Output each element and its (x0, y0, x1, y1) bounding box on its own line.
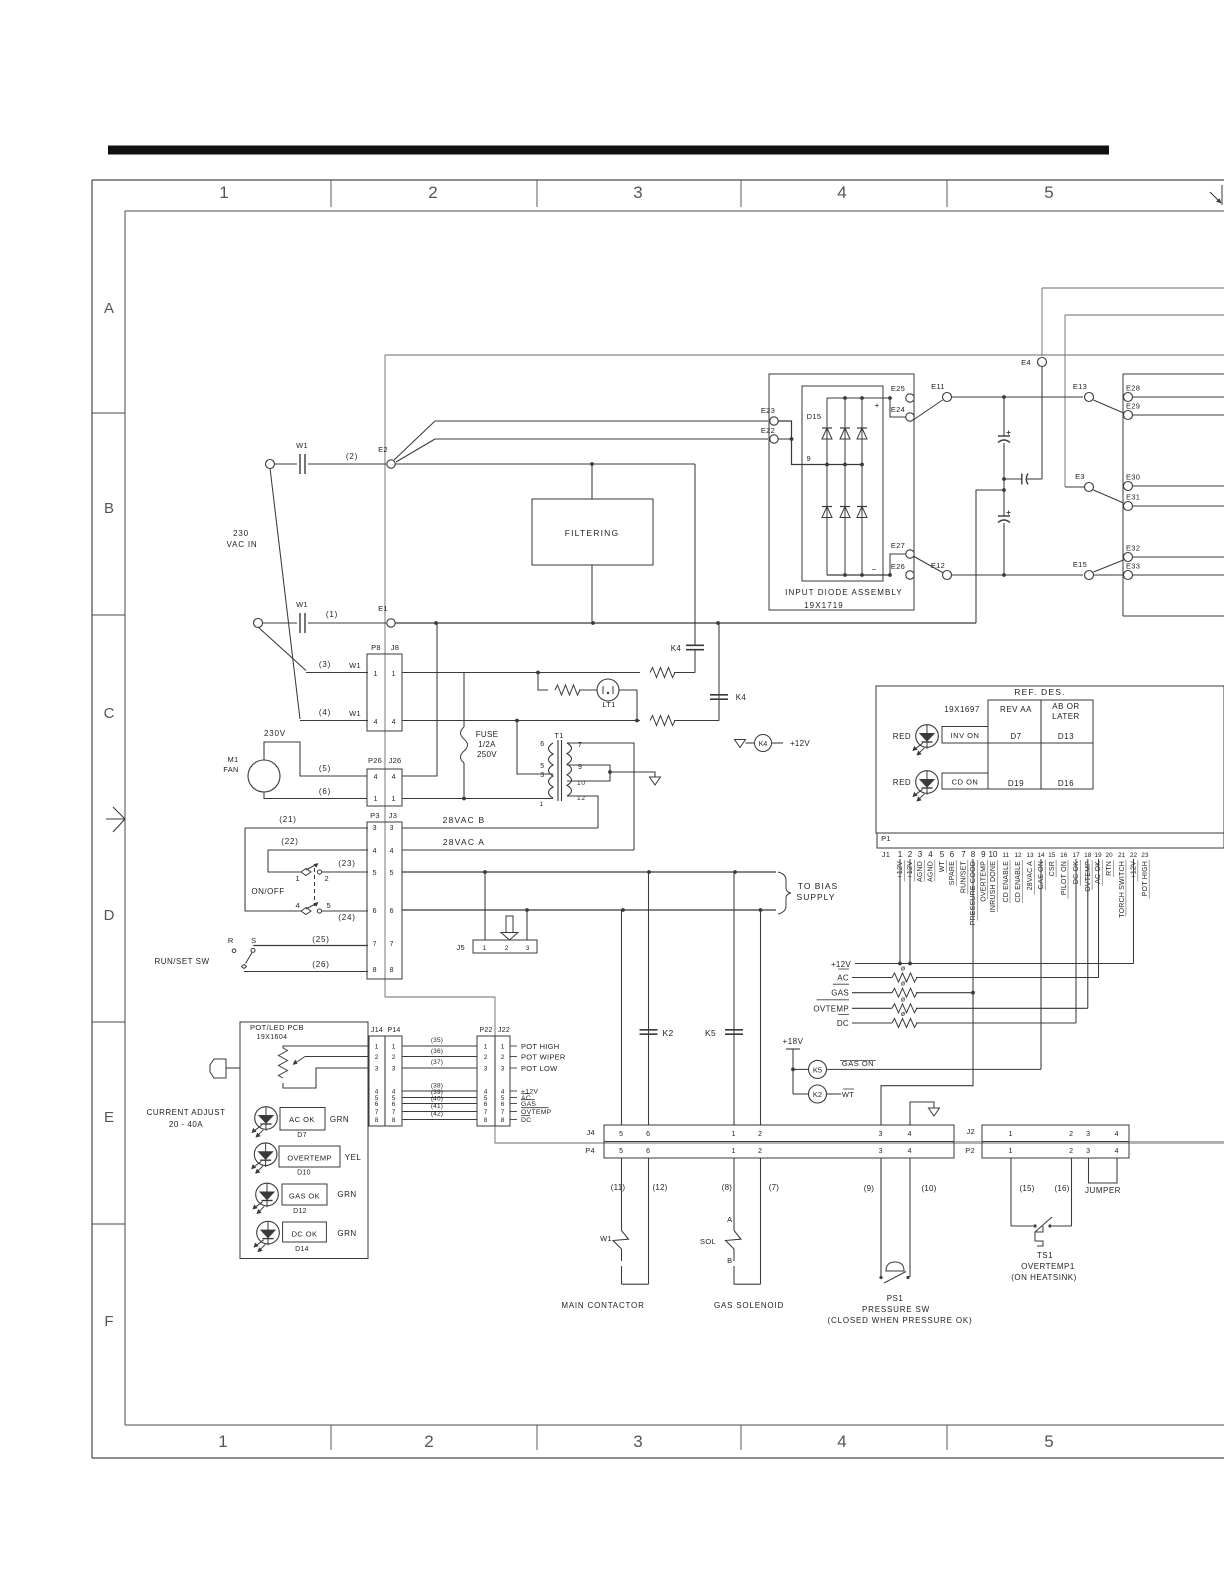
svg-text:GRN: GRN (330, 1115, 349, 1124)
svg-text:SUPPLY: SUPPLY (797, 892, 836, 902)
svg-text:250V: 250V (477, 750, 497, 759)
svg-text:(11): (11) (611, 1183, 626, 1192)
svg-text:7: 7 (961, 850, 966, 859)
svg-text:+12V: +12V (790, 739, 810, 748)
svg-text:16: 16 (1060, 852, 1068, 859)
svg-text:6: 6 (484, 1101, 488, 1108)
svg-text:11: 11 (1002, 852, 1009, 859)
svg-text:5: 5 (1044, 1432, 1053, 1451)
svg-text:3: 3 (390, 825, 395, 832)
svg-text:1: 1 (392, 671, 397, 678)
svg-text:M1: M1 (227, 755, 238, 764)
svg-text:8: 8 (390, 967, 395, 974)
svg-text:E3: E3 (1075, 472, 1085, 481)
svg-text:3: 3 (633, 1432, 642, 1451)
svg-text:3: 3 (879, 1148, 884, 1155)
svg-text:1: 1 (484, 1044, 488, 1051)
svg-text:5: 5 (390, 870, 395, 877)
svg-text:K2: K2 (813, 1090, 822, 1099)
svg-text:E24: E24 (891, 405, 905, 414)
svg-text:1: 1 (732, 1148, 737, 1155)
svg-text:RUN/SET: RUN/SET (961, 860, 968, 893)
svg-text:2: 2 (424, 1432, 433, 1451)
svg-text:7: 7 (390, 941, 395, 948)
svg-text:POT HIGH: POT HIGH (521, 1042, 560, 1051)
svg-text:D15: D15 (807, 412, 822, 421)
svg-text:5: 5 (619, 1148, 624, 1155)
svg-text:B: B (727, 1256, 733, 1265)
svg-text:4: 4 (908, 1131, 913, 1138)
svg-text:19X1697: 19X1697 (944, 705, 980, 714)
svg-text:GRN: GRN (337, 1229, 356, 1238)
svg-text:E23: E23 (761, 406, 775, 415)
svg-text:SOL: SOL (700, 1237, 716, 1246)
svg-text:8: 8 (971, 850, 976, 859)
svg-text:4: 4 (1115, 1148, 1120, 1155)
svg-text:E: E (104, 1109, 114, 1126)
svg-text:POT LOW: POT LOW (521, 1064, 558, 1073)
svg-text:POT/LED PCB: POT/LED PCB (250, 1023, 304, 1032)
svg-text:(25): (25) (312, 935, 329, 944)
svg-text:3: 3 (373, 825, 378, 832)
svg-text:E1: E1 (378, 604, 388, 613)
svg-text:28VAC B: 28VAC B (443, 815, 486, 825)
svg-text:P3: P3 (370, 811, 380, 820)
svg-text:4: 4 (374, 774, 379, 781)
svg-text:POT WIPER: POT WIPER (521, 1053, 566, 1062)
svg-text:P14: P14 (387, 1027, 400, 1034)
svg-text:23: 23 (1141, 852, 1149, 859)
svg-text:J8: J8 (391, 643, 400, 652)
svg-text:2: 2 (501, 1054, 505, 1061)
svg-text:CSR: CSR (1049, 861, 1056, 876)
svg-text:DC: DC (837, 1019, 849, 1028)
svg-text:(16): (16) (1054, 1184, 1069, 1193)
svg-text:S: S (251, 936, 257, 945)
svg-text:GRN: GRN (337, 1190, 356, 1199)
svg-text:19X1604: 19X1604 (257, 1034, 288, 1041)
svg-text:+: + (875, 401, 880, 410)
svg-text:(1): (1) (326, 610, 338, 619)
svg-text:D12: D12 (293, 1208, 307, 1215)
svg-text:(35): (35) (431, 1037, 443, 1044)
svg-text:2: 2 (758, 1148, 763, 1155)
svg-text:1: 1 (501, 1044, 505, 1051)
svg-text:P4: P4 (585, 1146, 595, 1155)
svg-text:INRUSH DONE: INRUSH DONE (990, 861, 997, 912)
svg-text:B: B (104, 500, 114, 517)
svg-text:OVERTEMP: OVERTEMP (981, 861, 988, 902)
svg-text:5: 5 (940, 850, 945, 859)
svg-text:(9): (9) (864, 1184, 875, 1193)
svg-text:WT: WT (939, 860, 946, 872)
svg-text:OVERTEMP: OVERTEMP (287, 1154, 331, 1163)
svg-text:(ON HEATSINK): (ON HEATSINK) (1011, 1273, 1076, 1282)
svg-text:J22: J22 (498, 1027, 510, 1034)
svg-text:5: 5 (327, 901, 332, 910)
svg-text:1: 1 (1009, 1148, 1014, 1155)
svg-text:+12V: +12V (907, 861, 914, 878)
svg-text:OVERTEMP1: OVERTEMP1 (1021, 1262, 1075, 1271)
svg-text:(41): (41) (431, 1103, 443, 1110)
svg-text:(12): (12) (652, 1183, 667, 1192)
svg-text:1: 1 (374, 796, 379, 803)
svg-text:P26: P26 (368, 756, 382, 765)
svg-text:E11: E11 (931, 382, 945, 391)
svg-text:GAS ON: GAS ON (1038, 861, 1045, 889)
svg-text:E25: E25 (891, 384, 905, 393)
svg-text:AC: AC (837, 974, 849, 983)
svg-text:1: 1 (732, 1131, 737, 1138)
svg-text:(36): (36) (431, 1048, 443, 1055)
svg-text:8: 8 (484, 1117, 488, 1124)
svg-text:DC OK: DC OK (292, 1230, 318, 1239)
svg-text:J2: J2 (966, 1127, 975, 1136)
svg-text:GAS SOLENOID: GAS SOLENOID (714, 1301, 784, 1310)
svg-text:(23): (23) (338, 859, 355, 868)
svg-text:3: 3 (484, 1066, 488, 1073)
svg-text:J1: J1 (882, 850, 891, 859)
svg-text:MAIN CONTACTOR: MAIN CONTACTOR (561, 1301, 644, 1310)
svg-text:A: A (104, 300, 114, 317)
svg-text:CURRENT ADJUST: CURRENT ADJUST (147, 1108, 226, 1117)
svg-text:19X1719: 19X1719 (804, 601, 844, 610)
svg-text:(2): (2) (346, 452, 358, 461)
svg-text:1: 1 (219, 183, 228, 202)
svg-text:−: − (872, 565, 877, 574)
svg-text:12: 12 (1014, 852, 1022, 859)
svg-text:AB OR: AB OR (1052, 702, 1079, 711)
svg-text:1: 1 (375, 1044, 379, 1051)
svg-text:4: 4 (392, 774, 397, 781)
svg-text:7: 7 (392, 1109, 396, 1116)
svg-text:J5: J5 (456, 943, 465, 952)
svg-text:GAS: GAS (831, 989, 849, 998)
svg-text:E28: E28 (1126, 384, 1140, 393)
svg-text:WT: WT (842, 1090, 854, 1099)
svg-text:PRESSURE SW: PRESSURE SW (862, 1305, 930, 1314)
svg-text:(4): (4) (319, 708, 331, 717)
svg-text:28VAC A: 28VAC A (443, 837, 485, 847)
svg-text:E29: E29 (1126, 402, 1140, 411)
svg-text:TO BIAS: TO BIAS (798, 881, 838, 891)
svg-text:ø: ø (901, 966, 906, 973)
svg-text:4: 4 (390, 848, 395, 855)
svg-text:17: 17 (1072, 852, 1080, 859)
svg-text:6: 6 (375, 1101, 379, 1108)
svg-text:3: 3 (526, 945, 530, 952)
svg-text:(15): (15) (1019, 1184, 1034, 1193)
svg-text:+12V: +12V (831, 960, 851, 969)
svg-text:3: 3 (540, 772, 545, 779)
svg-text:230V: 230V (264, 729, 286, 738)
svg-text:(7): (7) (769, 1183, 780, 1192)
svg-text:J14: J14 (371, 1027, 383, 1034)
svg-text:P1: P1 (881, 834, 891, 843)
svg-text:E27: E27 (891, 541, 905, 550)
svg-text:FUSE: FUSE (476, 730, 499, 739)
svg-text:4: 4 (1115, 1131, 1120, 1138)
svg-text:2: 2 (375, 1054, 379, 1061)
svg-text:E4: E4 (1021, 358, 1031, 367)
svg-text:(8): (8) (722, 1183, 733, 1192)
svg-text:E15: E15 (1073, 560, 1087, 569)
svg-text:W1: W1 (349, 661, 361, 670)
svg-text:7: 7 (484, 1109, 488, 1116)
svg-text:20 - 40A: 20 - 40A (169, 1120, 203, 1129)
svg-text:OVTEMP: OVTEMP (521, 1109, 552, 1116)
svg-text:(24): (24) (338, 913, 355, 922)
svg-text:(CLOSED WHEN PRESSURE OK): (CLOSED WHEN PRESSURE OK) (828, 1316, 973, 1325)
svg-text:6: 6 (390, 908, 395, 915)
svg-text:5: 5 (1044, 183, 1053, 202)
svg-text:W1: W1 (296, 441, 308, 450)
svg-text:D13: D13 (1058, 732, 1074, 741)
svg-text:P8: P8 (371, 643, 381, 652)
svg-text:D: D (104, 907, 115, 924)
svg-text:J4: J4 (586, 1128, 595, 1137)
svg-text:1: 1 (218, 1432, 227, 1451)
svg-text:2: 2 (908, 850, 913, 859)
svg-text:10: 10 (989, 850, 998, 859)
svg-text:P2: P2 (965, 1146, 975, 1155)
svg-text:W1: W1 (600, 1234, 612, 1243)
svg-text:PS1: PS1 (887, 1294, 904, 1303)
svg-text:1: 1 (392, 1044, 396, 1051)
svg-text:6: 6 (646, 1131, 651, 1138)
svg-text:2: 2 (428, 183, 437, 202)
svg-text:RTN: RTN (1106, 861, 1113, 876)
svg-text:K4: K4 (671, 644, 682, 653)
svg-text:4: 4 (374, 719, 379, 726)
svg-text:9: 9 (981, 850, 986, 859)
svg-text:1: 1 (296, 874, 301, 883)
svg-text:1: 1 (374, 671, 379, 678)
svg-text:(6): (6) (319, 787, 331, 796)
svg-text:P22: P22 (479, 1027, 492, 1034)
svg-text:1: 1 (1009, 1131, 1014, 1138)
svg-text:7: 7 (501, 1109, 505, 1116)
svg-text:RED: RED (893, 778, 911, 787)
svg-text:3: 3 (501, 1066, 505, 1073)
svg-text:E33: E33 (1126, 562, 1140, 571)
svg-text:PILOT ON: PILOT ON (1061, 861, 1068, 895)
svg-text:D19: D19 (1008, 779, 1024, 788)
svg-text:ø: ø (901, 996, 906, 1003)
svg-text:1: 1 (898, 850, 903, 859)
svg-text:TS1: TS1 (1037, 1251, 1053, 1260)
svg-text:E32: E32 (1126, 544, 1140, 553)
svg-text:F: F (104, 1313, 113, 1330)
svg-text:(22): (22) (281, 837, 298, 846)
svg-text:E26: E26 (891, 562, 905, 571)
svg-text:POT HIGH: POT HIGH (1142, 861, 1149, 896)
svg-text:E30: E30 (1126, 473, 1140, 482)
svg-text:RED: RED (893, 732, 911, 741)
svg-text:R: R (228, 936, 234, 945)
svg-text:FILTERING: FILTERING (565, 528, 620, 538)
svg-text:K4: K4 (759, 741, 768, 748)
svg-text:D14: D14 (295, 1246, 309, 1253)
svg-text:LATER: LATER (1052, 712, 1080, 721)
svg-text:(40): (40) (431, 1096, 443, 1103)
svg-text:DC: DC (521, 1117, 531, 1124)
svg-text:19: 19 (1094, 852, 1102, 859)
svg-text:AC OK: AC OK (289, 1115, 315, 1124)
svg-text:E12: E12 (931, 561, 945, 570)
svg-text:AGND: AGND (917, 861, 924, 882)
svg-text:K5: K5 (813, 1066, 822, 1075)
svg-text:4: 4 (928, 850, 933, 859)
svg-text:4: 4 (296, 901, 301, 910)
svg-text:2: 2 (325, 874, 330, 883)
svg-text:JUMPER: JUMPER (1085, 1186, 1121, 1195)
svg-text:7: 7 (375, 1109, 379, 1116)
svg-text:K2: K2 (663, 1028, 674, 1038)
svg-text:8: 8 (375, 1117, 379, 1124)
svg-text:TORCH SWITCH: TORCH SWITCH (1119, 861, 1126, 918)
svg-text:1/2A: 1/2A (478, 740, 496, 749)
svg-text:K5: K5 (705, 1028, 716, 1038)
svg-text:4: 4 (908, 1148, 913, 1155)
svg-text:6: 6 (373, 908, 378, 915)
svg-text:VAC IN: VAC IN (227, 540, 258, 549)
svg-text:7: 7 (373, 941, 378, 948)
svg-text:A: A (727, 1215, 733, 1224)
svg-text:C: C (104, 705, 115, 722)
svg-text:RUN/SET SW: RUN/SET SW (154, 957, 209, 966)
svg-text:INV ON: INV ON (951, 731, 980, 740)
svg-text:INPUT DIODE ASSEMBLY: INPUT DIODE ASSEMBLY (785, 588, 903, 597)
svg-text:D7: D7 (1010, 732, 1021, 741)
svg-text:YEL: YEL (345, 1153, 362, 1162)
svg-text:1: 1 (483, 945, 487, 952)
svg-text:DC OK: DC OK (1073, 861, 1080, 884)
svg-text:8: 8 (392, 1117, 396, 1124)
svg-text:3: 3 (633, 183, 642, 202)
svg-text:2: 2 (392, 1054, 396, 1061)
svg-text:W1: W1 (349, 709, 361, 718)
svg-text:CD ENABLE: CD ENABLE (1015, 861, 1022, 903)
svg-text:CD ON: CD ON (952, 778, 979, 787)
svg-text:W1: W1 (296, 600, 308, 609)
svg-text:22: 22 (1130, 852, 1138, 859)
svg-text:REV AA: REV AA (1000, 705, 1032, 714)
svg-text:18: 18 (1084, 852, 1092, 859)
svg-text:CD ENABLE: CD ENABLE (1003, 861, 1010, 903)
svg-text:3: 3 (918, 850, 923, 859)
svg-text:+18V: +18V (783, 1037, 804, 1046)
svg-text:1: 1 (540, 801, 544, 808)
svg-text:2: 2 (1069, 1131, 1074, 1138)
svg-text:3: 3 (879, 1131, 884, 1138)
svg-text:6: 6 (392, 1101, 396, 1108)
svg-text:D7: D7 (297, 1132, 307, 1139)
svg-text:PRESSURE GOOD: PRESSURE GOOD (970, 861, 977, 925)
svg-text:AGND: AGND (928, 861, 935, 882)
svg-text:E31: E31 (1126, 493, 1140, 502)
svg-text:(21): (21) (279, 815, 296, 824)
svg-text:1: 1 (392, 796, 397, 803)
svg-text:3: 3 (1086, 1148, 1091, 1155)
svg-text:T1: T1 (554, 731, 563, 740)
svg-text:21: 21 (1118, 852, 1126, 859)
svg-text:28VAC A: 28VAC A (1027, 861, 1034, 890)
svg-text:ON/OFF: ON/OFF (251, 887, 284, 896)
svg-text:(5): (5) (319, 764, 331, 773)
svg-text:OVTEMP: OVTEMP (813, 1004, 849, 1013)
svg-text:6: 6 (950, 850, 955, 859)
svg-text:2: 2 (484, 1054, 488, 1061)
svg-text:(26): (26) (312, 960, 329, 969)
svg-text:D16: D16 (1058, 779, 1074, 788)
svg-text:E13: E13 (1073, 382, 1087, 391)
svg-text:K4: K4 (736, 693, 747, 702)
svg-text:GAS: GAS (521, 1101, 536, 1108)
svg-text:13: 13 (1026, 852, 1034, 859)
svg-text:20: 20 (1105, 852, 1113, 859)
svg-text:(3): (3) (319, 660, 331, 669)
svg-text:ø: ø (901, 981, 906, 988)
svg-text:E22: E22 (761, 426, 775, 435)
svg-text:4: 4 (837, 183, 846, 202)
svg-text:6: 6 (501, 1101, 505, 1108)
svg-text:2: 2 (758, 1131, 763, 1138)
svg-text:15: 15 (1048, 852, 1056, 859)
svg-text:(42): (42) (431, 1111, 443, 1118)
svg-text:LT1: LT1 (602, 700, 615, 709)
svg-text:6: 6 (646, 1148, 651, 1155)
svg-text:14: 14 (1037, 852, 1045, 859)
svg-text:4: 4 (373, 848, 378, 855)
svg-text:5: 5 (540, 763, 545, 770)
svg-text:3: 3 (375, 1066, 379, 1073)
svg-text:5: 5 (619, 1131, 624, 1138)
svg-text:3: 3 (392, 1066, 396, 1073)
svg-text:SPARE: SPARE (949, 861, 956, 885)
svg-text:4: 4 (392, 719, 397, 726)
svg-text:6: 6 (540, 741, 545, 748)
svg-text:5: 5 (373, 870, 378, 877)
svg-text:GAS OK: GAS OK (289, 1192, 320, 1201)
svg-text:(10): (10) (921, 1184, 936, 1193)
svg-text:J26: J26 (389, 756, 402, 765)
svg-text:OVTEMP: OVTEMP (1085, 861, 1092, 892)
svg-text:3: 3 (1086, 1131, 1091, 1138)
svg-text:ø: ø (901, 1011, 906, 1018)
svg-text:+12V: +12V (1131, 861, 1138, 878)
svg-text:2: 2 (1069, 1148, 1074, 1155)
svg-text:FAN: FAN (223, 765, 239, 774)
svg-text:REF. DES.: REF. DES. (1014, 687, 1065, 697)
svg-text:J3: J3 (389, 811, 398, 820)
svg-text:9: 9 (807, 454, 812, 463)
svg-text:D10: D10 (297, 1170, 311, 1177)
svg-text:(37): (37) (431, 1059, 443, 1066)
svg-text:230: 230 (233, 529, 249, 538)
svg-text:2: 2 (505, 945, 509, 952)
svg-text:8: 8 (501, 1117, 505, 1124)
svg-text:E2: E2 (378, 445, 388, 454)
svg-text:+12V: +12V (897, 861, 904, 878)
svg-text:4: 4 (837, 1432, 846, 1451)
svg-text:8: 8 (373, 967, 378, 974)
